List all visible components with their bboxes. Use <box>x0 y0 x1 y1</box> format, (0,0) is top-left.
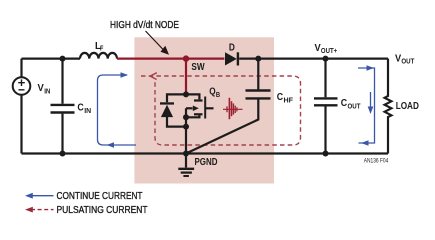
svg-text:PULSATING CURRENT: PULSATING CURRENT <box>57 205 148 216</box>
svg-text:OUT+: OUT+ <box>321 46 338 55</box>
svg-text:HIGH dV/dt NODE: HIGH dV/dt NODE <box>110 20 179 31</box>
svg-text:OUT: OUT <box>401 57 414 66</box>
svg-text:AN136 F04: AN136 F04 <box>364 158 389 164</box>
svg-text:SW: SW <box>191 62 205 73</box>
svg-text:V: V <box>38 82 44 94</box>
svg-text:Q: Q <box>209 87 216 98</box>
svg-text:IN: IN <box>84 106 91 115</box>
svg-text:C: C <box>277 91 284 103</box>
svg-text:HF: HF <box>284 96 294 105</box>
svg-text:OUT: OUT <box>348 101 361 110</box>
svg-text:PGND: PGND <box>195 157 218 168</box>
svg-text:IN: IN <box>44 86 50 95</box>
svg-text:D: D <box>229 42 235 53</box>
svg-text:C: C <box>77 101 84 113</box>
svg-text:CONTINUE CURRENT: CONTINUE CURRENT <box>57 191 143 202</box>
svg-text:F: F <box>100 43 104 52</box>
svg-text:V: V <box>315 42 321 54</box>
svg-text:C: C <box>341 97 348 109</box>
svg-text:LOAD: LOAD <box>396 101 419 112</box>
svg-text:B: B <box>216 90 221 99</box>
svg-text:V: V <box>395 52 401 64</box>
